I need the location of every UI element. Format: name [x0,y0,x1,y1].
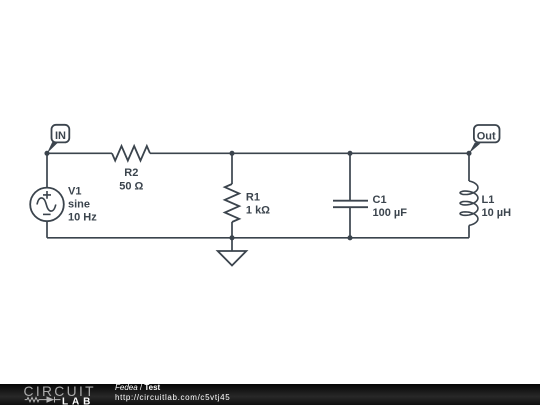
svg-text:L1: L1 [482,194,495,206]
svg-text:V1: V1 [68,185,81,197]
svg-text:50 Ω: 50 Ω [119,180,143,192]
svg-text:10 µH: 10 µH [482,207,512,219]
svg-text:R2: R2 [124,167,138,179]
svg-text:Out: Out [477,130,496,142]
svg-text:1 kΩ: 1 kΩ [246,205,270,217]
svg-text:10 Hz: 10 Hz [68,212,97,224]
svg-text:100 µF: 100 µF [373,207,408,219]
svg-text:C1: C1 [373,194,387,206]
svg-text:sine: sine [68,199,90,211]
svg-text:R1: R1 [246,192,260,204]
svg-text:IN: IN [55,130,66,142]
svg-text:LAB: LAB [62,397,94,405]
